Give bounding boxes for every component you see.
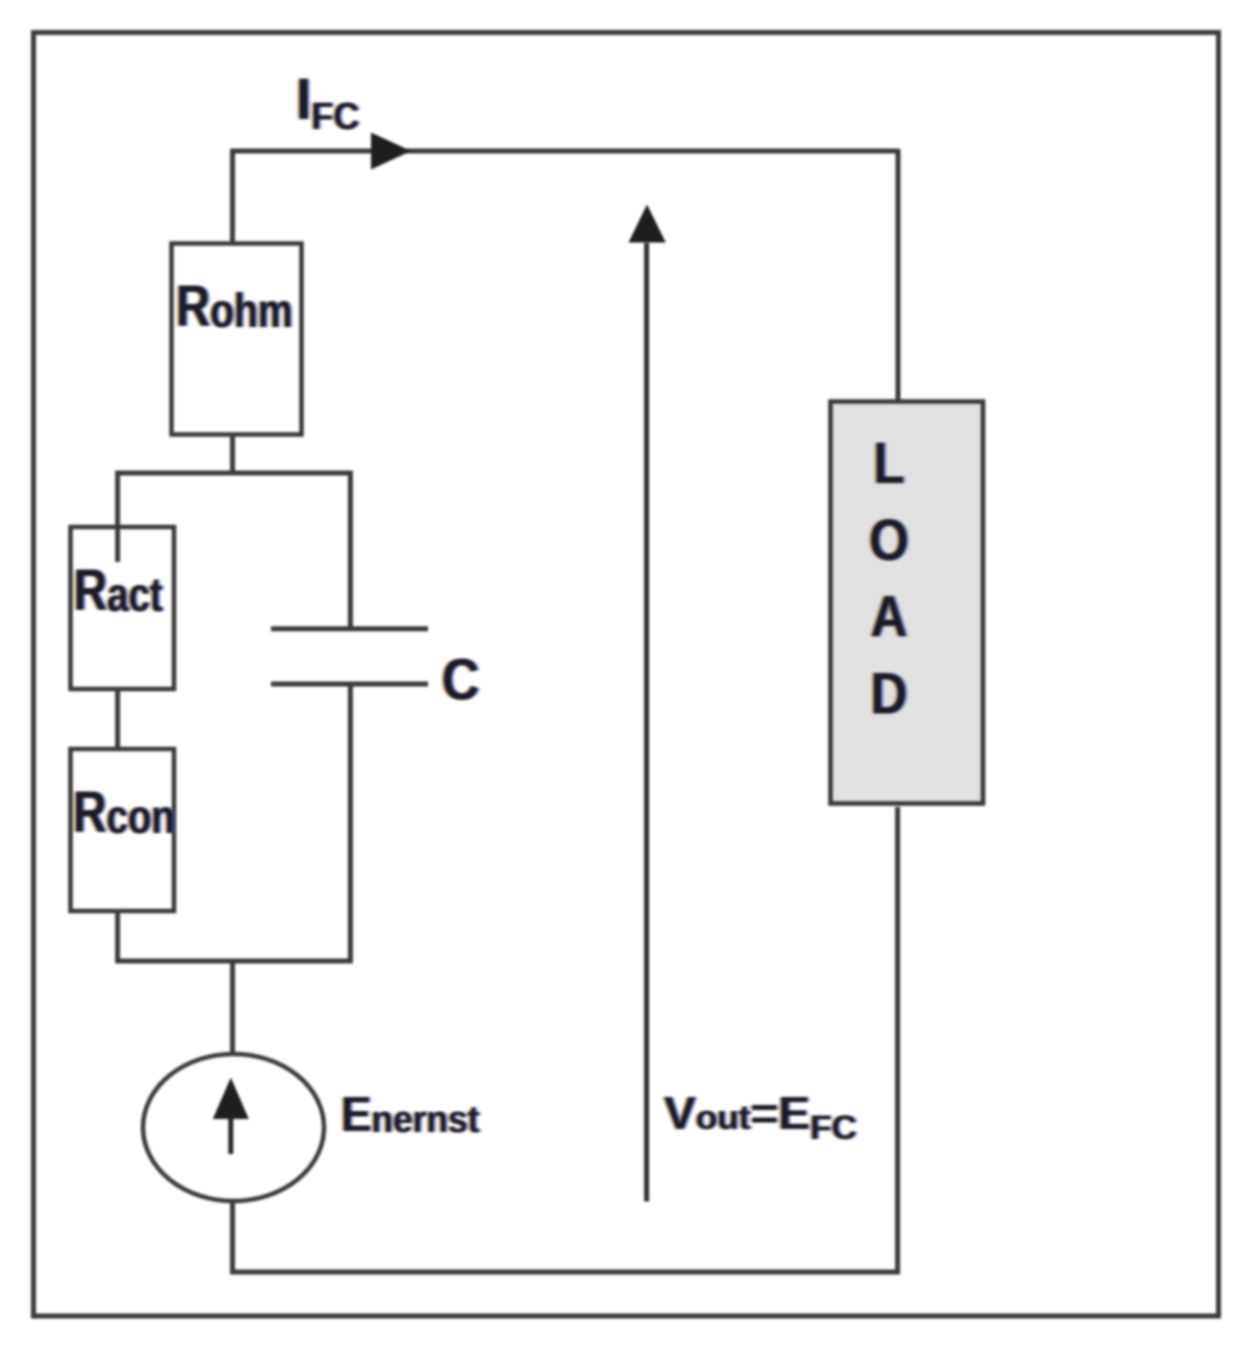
svg-text:IFC: IFC — [296, 67, 359, 137]
svg-text:Vout=EFC: Vout=EFC — [664, 1088, 857, 1147]
wire: top-left vertical from top wire down to Rohm — [230, 149, 235, 246]
svg-text:C: C — [442, 647, 480, 712]
Vout arrow head — [629, 205, 666, 243]
wire: left branch vertical into Ract — [115, 471, 120, 562]
wire: Rcon bottom to parallel bottom — [115, 909, 120, 963]
capacitor C top plate — [271, 626, 428, 631]
svg-text:Rohm: Rohm — [176, 274, 293, 339]
resistor Rohm — [172, 244, 302, 435]
svg-text:O: O — [869, 508, 909, 573]
current arrow on top wire — [371, 133, 411, 170]
svg-text:L: L — [873, 431, 904, 496]
current source E_nernst circle — [143, 1054, 324, 1201]
wire: capacitor branch bottom vertical — [348, 684, 353, 963]
wire: Ract to Rcon — [115, 687, 120, 751]
resistor Rcon — [71, 749, 175, 911]
wire: right vertical bottom (load to bottom wire) — [895, 807, 900, 1274]
wire: mid vertical from parallel bottom to source — [230, 959, 235, 1053]
svg-text:D: D — [871, 661, 908, 726]
source arrow head — [213, 1078, 249, 1120]
LOAD box — [831, 402, 984, 804]
wire: Rohm bottom to parallel node — [230, 433, 235, 475]
resistor Ract — [71, 527, 175, 689]
capacitor C bottom plate — [271, 682, 428, 687]
wire: source bottom to bottom wire — [230, 1201, 235, 1274]
wire: bottom horizontal — [230, 1270, 900, 1275]
svg-text:A: A — [871, 585, 908, 650]
wire: right vertical top (top wire to load) — [896, 149, 901, 403]
wire: top horizontal — [231, 149, 899, 154]
Vout arrow line — [644, 243, 649, 1202]
wire: parallel section bottom horizontal — [116, 959, 353, 964]
svg-text:Enernst: Enernst — [341, 1088, 479, 1143]
wire: parallel section top horizontal — [116, 471, 353, 476]
source arrow shaft — [228, 1116, 233, 1154]
wire: capacitor branch top vertical — [348, 471, 353, 629]
